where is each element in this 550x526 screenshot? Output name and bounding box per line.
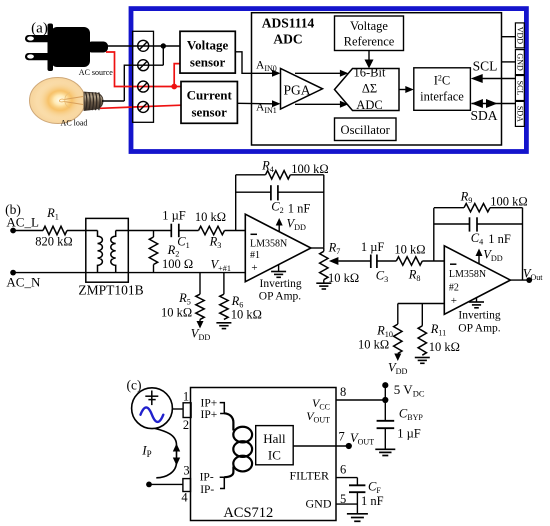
svg-text:R8: R8 (408, 267, 421, 283)
svg-text:ADC: ADC (273, 32, 302, 47)
svg-text:SCL: SCL (473, 59, 498, 74)
svg-text:1 nF: 1 nF (288, 202, 311, 216)
svg-text:1 µF: 1 µF (162, 208, 186, 222)
svg-text:(c): (c) (127, 378, 142, 393)
svg-text:3: 3 (183, 463, 189, 477)
svg-text:OP Amp.: OP Amp. (458, 323, 501, 335)
svg-text:GND: GND (515, 53, 524, 71)
svg-text:VDD: VDD (515, 27, 524, 45)
svg-text:+: + (451, 295, 457, 307)
svg-text:100 Ω: 100 Ω (162, 257, 193, 271)
svg-text:OP Amp.: OP Amp. (259, 291, 302, 303)
svg-text:1 nF: 1 nF (361, 494, 384, 508)
svg-text:ΔΣ: ΔΣ (362, 82, 377, 96)
svg-text:10 kΩ: 10 kΩ (231, 308, 262, 322)
svg-text:1: 1 (183, 389, 189, 403)
svg-text:VDD: VDD (287, 216, 307, 232)
svg-text:IC: IC (268, 448, 281, 463)
svg-text:AC source: AC source (79, 68, 113, 77)
svg-text:AC_N: AC_N (6, 275, 41, 290)
svg-text:GND: GND (306, 497, 332, 511)
svg-text:AC_L: AC_L (6, 215, 39, 230)
svg-text:R1: R1 (46, 206, 59, 222)
svg-text:Voltage: Voltage (350, 19, 388, 33)
svg-text:AIN0: AIN0 (256, 60, 277, 74)
svg-text:5: 5 (340, 492, 346, 506)
svg-text:1 µF: 1 µF (397, 427, 421, 441)
svg-text:CBYP: CBYP (399, 407, 423, 423)
svg-text:C3: C3 (376, 269, 388, 285)
svg-text:VDD: VDD (483, 248, 503, 264)
svg-text:IP-: IP- (200, 472, 214, 484)
svg-text:Current: Current (187, 88, 233, 103)
svg-text:SCL: SCL (515, 81, 524, 96)
svg-text:+: + (251, 262, 257, 274)
svg-text:I2C: I2C (434, 74, 451, 88)
svg-text:8: 8 (340, 385, 346, 399)
svg-text:PGA: PGA (283, 83, 310, 98)
svg-text:R5: R5 (178, 291, 191, 307)
svg-text:SDA: SDA (470, 108, 497, 123)
svg-text:2: 2 (183, 418, 189, 432)
svg-text:5 VDC: 5 VDC (394, 382, 425, 399)
svg-text:SDA: SDA (515, 106, 524, 122)
svg-text:10 kΩ: 10 kΩ (195, 210, 226, 224)
svg-text:10 kΩ: 10 kΩ (429, 340, 460, 354)
svg-text:V+#1: V+#1 (211, 257, 231, 273)
svg-text:(a): (a) (31, 21, 48, 37)
svg-text:ACS712: ACS712 (223, 505, 273, 521)
svg-text:C2: C2 (271, 200, 283, 216)
svg-text:ADC: ADC (356, 98, 382, 112)
svg-text:FILTER: FILTER (289, 468, 329, 482)
svg-text:6: 6 (340, 463, 346, 477)
svg-text:sensor: sensor (192, 105, 228, 120)
svg-text:1 nF: 1 nF (488, 232, 511, 246)
svg-text:C4: C4 (471, 231, 483, 247)
svg-text:interface: interface (420, 90, 464, 104)
svg-text:R11: R11 (430, 322, 447, 338)
svg-text:Oscillator: Oscillator (341, 123, 391, 137)
svg-text:Inverting: Inverting (458, 310, 500, 322)
svg-text:100 kΩ: 100 kΩ (490, 194, 527, 208)
svg-text:ADS1114: ADS1114 (262, 16, 315, 31)
svg-text:LM358N: LM358N (449, 269, 486, 280)
svg-text:Voltage: Voltage (187, 38, 229, 53)
svg-text:VCC: VCC (312, 396, 330, 412)
svg-text:LM358N: LM358N (250, 239, 287, 250)
svg-text:R4: R4 (261, 159, 274, 175)
svg-text:1 µF: 1 µF (361, 240, 385, 254)
svg-text:820 kΩ: 820 kΩ (35, 235, 72, 249)
svg-text:sensor: sensor (190, 55, 226, 70)
svg-text:R9: R9 (460, 190, 473, 206)
svg-text:VOUT: VOUT (350, 431, 374, 447)
svg-text:Hall: Hall (263, 431, 286, 446)
svg-text:VOut: VOut (523, 267, 543, 283)
svg-text:#2: #2 (449, 283, 459, 294)
svg-text:IP+: IP+ (201, 409, 218, 421)
svg-text:100 kΩ: 100 kΩ (291, 162, 328, 176)
svg-text:10 kΩ: 10 kΩ (394, 242, 425, 256)
svg-text:IP+: IP+ (201, 397, 218, 409)
svg-text:10 kΩ: 10 kΩ (328, 271, 359, 285)
svg-text:AC load: AC load (61, 119, 88, 128)
svg-text:IP-: IP- (200, 484, 214, 496)
svg-text:C1: C1 (177, 235, 189, 251)
svg-text:#1: #1 (250, 250, 260, 261)
svg-text:VDD: VDD (388, 361, 408, 377)
svg-text:10 kΩ: 10 kΩ (161, 306, 192, 320)
svg-text:VDD: VDD (191, 327, 211, 343)
svg-text:Inverting: Inverting (260, 278, 302, 290)
svg-text:10 kΩ: 10 kΩ (358, 338, 389, 352)
svg-text:4: 4 (181, 491, 188, 505)
svg-text:R7: R7 (328, 241, 341, 257)
svg-text:CF: CF (368, 479, 381, 495)
svg-text:7: 7 (339, 430, 345, 444)
svg-text:ZMPT101B: ZMPT101B (78, 283, 143, 298)
svg-text:16-Bit: 16-Bit (354, 66, 386, 80)
svg-text:Reference: Reference (344, 35, 395, 49)
svg-text:IP: IP (141, 443, 151, 460)
svg-text:R3: R3 (209, 235, 222, 251)
